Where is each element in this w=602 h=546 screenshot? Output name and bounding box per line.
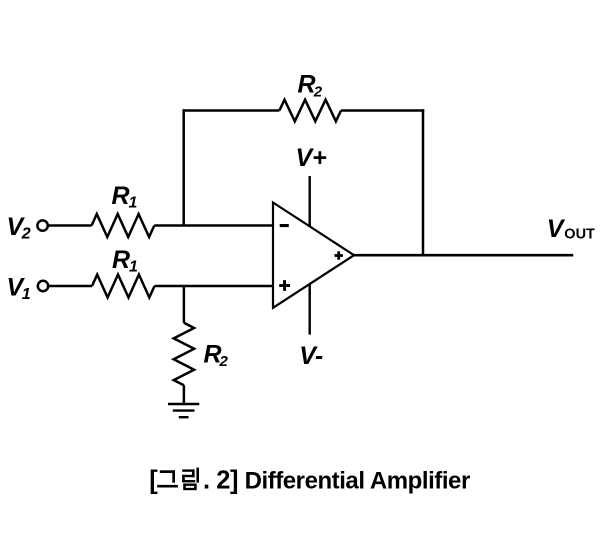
svg-text:1: 1 bbox=[129, 195, 138, 212]
label R2 (to ground) bbox=[204, 341, 229, 370]
label R1 (non-inverting input) bbox=[112, 246, 138, 276]
svg-text:V-: V- bbox=[299, 342, 323, 370]
svg-text:V+: V+ bbox=[296, 144, 328, 172]
wire: feedback top-right horizontal segment bbox=[341, 109, 424, 112]
svg-text:OUT: OUT bbox=[564, 226, 595, 242]
wire: V- supply pin bbox=[309, 284, 311, 335]
terminal V2 (open circle) bbox=[37, 220, 47, 230]
wire: V+ supply pin bbox=[309, 176, 311, 227]
resistor R1 (non-inverting input) bbox=[92, 275, 155, 298]
node V2 label bbox=[7, 213, 31, 243]
pin marking: non-inverting input (+) bbox=[279, 280, 290, 291]
ground bbox=[168, 404, 199, 417]
wire: V2 to R1 bbox=[49, 224, 92, 227]
wire: R1 to op-amp non-inverting input bbox=[155, 285, 275, 288]
svg-text:2: 2 bbox=[219, 353, 229, 370]
resistor R2 (to ground) bbox=[174, 323, 194, 386]
svg-text:R: R bbox=[112, 182, 130, 210]
wire: feedback left vertical (to inverting input node) bbox=[182, 109, 185, 225]
terminal V1 (open circle) bbox=[38, 281, 48, 291]
wire: non-inverting node down to R2 bbox=[183, 286, 186, 323]
label R2 (feedback) bbox=[298, 71, 323, 101]
svg-text:2: 2 bbox=[21, 226, 31, 243]
svg-text:1: 1 bbox=[22, 286, 31, 303]
wire: R1 to op-amp inverting input bbox=[154, 224, 274, 227]
wire: feedback right vertical (to output node) bbox=[422, 109, 425, 255]
svg-text:R: R bbox=[112, 246, 130, 274]
svg-text:2: 2 bbox=[313, 84, 323, 101]
op-amp U1 bbox=[273, 203, 354, 308]
node VOUT label bbox=[547, 215, 595, 243]
wire: op-amp output to VOUT bbox=[353, 254, 573, 257]
svg-text:V: V bbox=[547, 215, 566, 243]
wire: R2 to ground symbol bbox=[183, 385, 186, 404]
resistor R2 (feedback) bbox=[279, 100, 341, 122]
pin marking: inverting input (-) bbox=[280, 224, 289, 227]
label R1 (inverting input) bbox=[112, 182, 138, 212]
node V1 label bbox=[7, 273, 31, 303]
wire: feedback top-left horizontal segment bbox=[183, 109, 280, 112]
svg-text:1: 1 bbox=[129, 259, 138, 276]
resistor R1 (inverting input) bbox=[92, 214, 155, 237]
wire: V1 to R1 bbox=[49, 285, 92, 288]
pin marking: output polarity (+) bbox=[335, 251, 343, 259]
